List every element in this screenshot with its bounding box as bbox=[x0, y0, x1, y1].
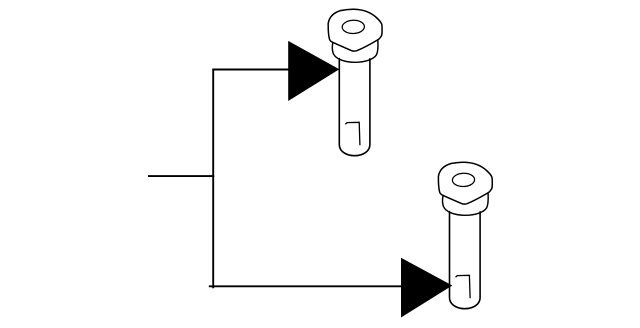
bolt flange bbox=[332, 41, 378, 63]
bolt head top face bbox=[328, 9, 382, 51]
bolt head top face bbox=[438, 162, 492, 204]
arrow to bolt B2 bbox=[401, 258, 452, 318]
bolt shank body bbox=[339, 59, 370, 156]
wire: vertical trunk bbox=[212, 69, 214, 289]
wire: left stub bbox=[148, 175, 214, 177]
bolt flange bbox=[443, 194, 489, 216]
bolt shank body bbox=[450, 212, 481, 309]
bolt B2 bbox=[438, 162, 492, 308]
bolt thread mark bbox=[346, 122, 360, 144]
bolt thread mark bbox=[456, 275, 470, 297]
arrow to bolt B1 bbox=[288, 41, 339, 101]
bolt head socket hole bbox=[452, 173, 475, 187]
bolt B1 bbox=[328, 9, 382, 155]
bolt head socket hole bbox=[342, 20, 365, 34]
wire: bottom branch bbox=[209, 285, 404, 287]
wire: top branch bbox=[212, 69, 292, 71]
